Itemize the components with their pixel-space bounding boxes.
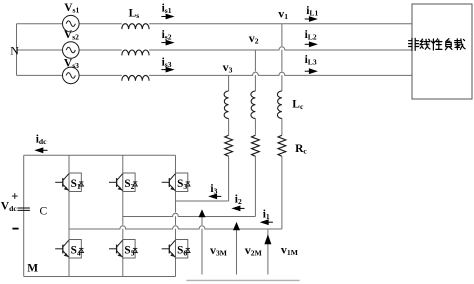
- svg-text:M: M: [27, 262, 38, 274]
- svg-text:+: +: [11, 189, 18, 203]
- svg-text:N: N: [10, 43, 19, 57]
- svg-text:C: C: [40, 205, 48, 217]
